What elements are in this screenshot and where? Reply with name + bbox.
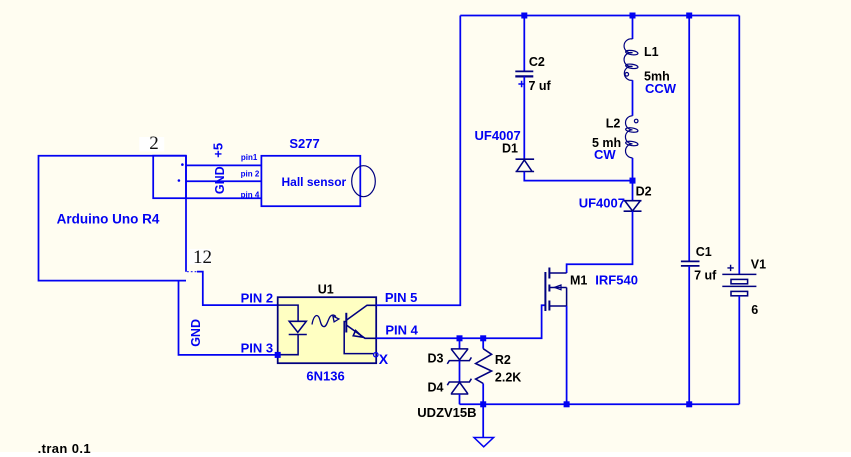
optocoupler U1 box [278, 297, 377, 363]
svg-text:6N136: 6N136 [306, 369, 344, 384]
wire pin1 [186, 164, 261, 166]
node square rail/ground [480, 401, 486, 407]
wire GND to PIN3 [179, 281, 278, 355]
C2 plus sign [518, 81, 524, 87]
U1 internal LED wiring [278, 305, 298, 355]
node square PIN4/R2 [480, 335, 486, 341]
svg-text:2: 2 [149, 133, 159, 154]
Arduino Uno R4 box X1 [39, 156, 187, 281]
wire source down [566, 306, 568, 404]
Arduino header inner box [153, 156, 186, 199]
svg-text:PIN 3: PIN 3 [241, 341, 274, 356]
node square rail/source [564, 401, 570, 407]
diode D2 [624, 201, 642, 212]
capacitor C1 [681, 261, 700, 266]
wire bottom rail [460, 403, 740, 405]
wire R2 stub top [482, 338, 484, 348]
wire C1 bottom [688, 266, 690, 404]
svg-text:Hall sensor: Hall sensor [282, 175, 347, 189]
svg-text:12: 12 [193, 247, 212, 268]
wire PIN4 to gate [376, 305, 545, 338]
svg-text:PIN 2: PIN 2 [241, 291, 274, 306]
U1 phototransistor [344, 305, 376, 353]
inductor L1 [624, 39, 638, 80]
svg-text:2.2K: 2.2K [495, 371, 521, 385]
wire PIN5 riser [376, 16, 460, 306]
zener D4 [447, 379, 471, 394]
ground symbol [474, 438, 494, 447]
Hall sensor ellipse [352, 166, 376, 197]
svg-text:V1: V1 [751, 258, 766, 272]
wire C1 top [688, 16, 690, 262]
svg-text:S277: S277 [289, 136, 319, 151]
svg-text:C2: C2 [529, 55, 545, 69]
svg-text:L2: L2 [606, 116, 621, 130]
U1 pin X open circle [374, 353, 378, 357]
svg-text:Arduino Uno R4: Arduino Uno R4 [57, 212, 160, 227]
U1 LED diode [289, 321, 307, 334]
svg-text:PIN 5: PIN 5 [385, 290, 418, 305]
net label 12 [189, 247, 212, 268]
svg-text:pin 4: pin 4 [241, 190, 260, 199]
wire D4 to rail [459, 394, 461, 404]
bottom white strip [0, 452, 851, 457]
svg-text:PIN 4: PIN 4 [385, 322, 418, 337]
svg-text:7 uf: 7 uf [529, 79, 552, 93]
wire D3 stub [459, 338, 461, 349]
pin dot [178, 179, 181, 182]
wire C2 top [523, 16, 525, 72]
node square PIN4/D3 [457, 335, 463, 341]
svg-text:7 uf: 7 uf [694, 269, 717, 283]
svg-text:CCW: CCW [645, 81, 677, 96]
svg-text:X: X [379, 351, 389, 367]
node square rail/L1 top [630, 13, 636, 19]
svg-text:R2: R2 [495, 353, 511, 367]
svg-text:IRF540: IRF540 [595, 273, 638, 288]
svg-text:CW: CW [594, 147, 616, 162]
mosfet M1 [545, 268, 566, 312]
wire V1 bottom [738, 296, 740, 405]
wire pin12 to PIN2 [197, 272, 278, 306]
wire V1 top [738, 16, 740, 275]
wire pin12 dashed stub [187, 271, 197, 273]
svg-text:UF4007: UF4007 [579, 195, 625, 210]
wire L2 to D2 [632, 158, 634, 201]
svg-text:.tran 0.1: .tran 0.1 [38, 441, 91, 456]
ground stem [482, 404, 484, 437]
node square rail/C1 top [686, 13, 692, 19]
wire D3 to D4 [459, 361, 461, 382]
Hall sensor box S277 [261, 156, 360, 206]
svg-text:C1: C1 [696, 245, 712, 259]
node square rail/C2 top [521, 13, 527, 19]
svg-text:UDZV15B: UDZV15B [417, 405, 476, 420]
resistor R2 [476, 349, 492, 384]
wire pin4 [186, 197, 261, 199]
svg-text:pin 2: pin 2 [241, 169, 260, 178]
wire D1 to L2 node [524, 172, 632, 181]
svg-text:L1: L1 [644, 45, 659, 59]
pin dot [181, 163, 184, 166]
wire C2 to D1 [523, 76, 525, 159]
node square L2/D1 junction [630, 178, 636, 184]
battery V1 [722, 274, 756, 295]
svg-text:6: 6 [751, 303, 758, 317]
wire R2 stub bottom [482, 384, 484, 405]
svg-text:+5: +5 [211, 143, 226, 158]
zener D3 [447, 349, 471, 364]
svg-text:U1: U1 [318, 283, 334, 297]
V1 plus sign [727, 265, 733, 271]
svg-text:D2: D2 [636, 185, 652, 199]
wire D2 to drain [567, 211, 633, 273]
svg-text:M1: M1 [570, 274, 587, 288]
net label 2 [139, 133, 164, 154]
wire top rail [460, 15, 739, 17]
svg-text:GND: GND [189, 319, 203, 347]
wire L1 to L2 [632, 80, 634, 116]
U1 light squiggle arrow [312, 315, 339, 327]
capacitor C2 [515, 71, 533, 76]
wire pin2 [186, 180, 261, 182]
svg-text:D1: D1 [502, 141, 518, 155]
svg-text:GND: GND [213, 166, 227, 194]
wire L1 top [632, 16, 634, 40]
diode D1 [516, 159, 535, 171]
node square rail/C1 [686, 401, 692, 407]
node square PIN3 [275, 352, 281, 358]
svg-text:D3: D3 [428, 351, 444, 365]
inductor L2 [625, 116, 638, 158]
svg-text:D4: D4 [428, 381, 444, 395]
svg-text:pin1: pin1 [241, 153, 258, 162]
